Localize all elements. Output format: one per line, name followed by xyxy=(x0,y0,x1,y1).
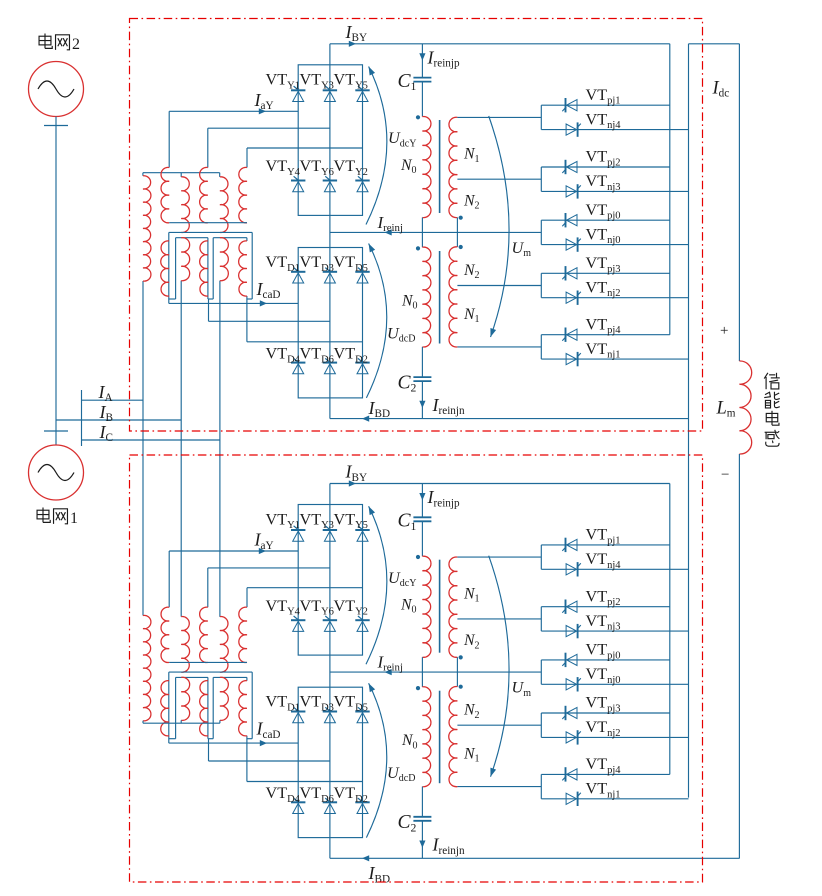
winding D primary c xyxy=(220,677,228,720)
svg-text:N0: N0 xyxy=(401,732,418,751)
polarity dot lower secondary xyxy=(459,245,463,249)
winding D secondary a xyxy=(161,681,169,736)
thyristor pair VTpj4 VTnj1 branch wires xyxy=(457,774,688,798)
series winding link phase C between modules xyxy=(219,281,221,617)
wire Ireinj middle rail xyxy=(330,655,541,687)
winding D secondary a xyxy=(161,241,169,296)
svg-text:UdcD: UdcD xyxy=(387,763,415,784)
svg-text:IC: IC xyxy=(99,422,113,444)
thyristor VTD3 xyxy=(323,268,337,283)
D-group outer loop wire xyxy=(169,672,252,743)
winding N1 N2 upper secondary xyxy=(449,117,457,217)
thyristor VTY2 xyxy=(355,616,369,631)
thyristor VTpj4 xyxy=(562,328,577,342)
thyristor VTY4 xyxy=(291,176,305,191)
svg-text:VTY3: VTY3 xyxy=(300,71,334,92)
thyristor VTD2 xyxy=(355,358,369,373)
svg-text:VTnj0: VTnj0 xyxy=(586,665,621,686)
thyristor VTnj3 xyxy=(566,624,581,638)
svg-text:VTpj0: VTpj0 xyxy=(586,641,621,662)
svg-text:Um: Um xyxy=(512,678,532,699)
thyristor VTD3 xyxy=(323,707,337,722)
thyristor VTD5 xyxy=(355,707,369,722)
curved arrow Um xyxy=(488,556,509,778)
svg-text:C1: C1 xyxy=(398,511,417,533)
labels VTD1 VTD3 VTD5 xyxy=(266,693,368,714)
winding D secondary c xyxy=(239,681,247,736)
wire phase b into D bridge xyxy=(209,299,330,321)
bus of nj thyristors spanning both modules xyxy=(688,44,690,798)
labels VTD4 VTD6 VTD2 xyxy=(266,345,368,366)
svg-text:Idc: Idc xyxy=(712,79,730,100)
wire phase bY into Y bridge xyxy=(208,568,330,607)
svg-text:C2: C2 xyxy=(398,373,417,395)
svg-text:Ireinjp: Ireinjp xyxy=(427,487,461,509)
svg-text:VTpj4: VTpj4 xyxy=(586,755,622,776)
thyristor VTD4 xyxy=(291,358,305,373)
svg-text:VTpj1: VTpj1 xyxy=(586,86,621,107)
labels VTY4 VTY6 VTY2 xyxy=(266,157,368,178)
svg-text:VTY3: VTY3 xyxy=(300,510,334,531)
thyristor pair VTpj0 VTnj0 branch wires xyxy=(541,220,688,244)
svg-text:VTnj4: VTnj4 xyxy=(586,110,622,131)
lower common bus of series windings xyxy=(143,720,220,723)
svg-text:VTnj3: VTnj3 xyxy=(586,172,621,193)
winding phase-A series coil (tall) xyxy=(143,176,151,281)
svg-text:N0: N0 xyxy=(401,292,418,311)
thyristor pair VTpj1 VTnj4 branch wires xyxy=(457,105,688,129)
wire phase b into D bridge xyxy=(209,739,330,761)
svg-text:VTD6: VTD6 xyxy=(300,784,334,805)
bus of pj thyristors xyxy=(669,44,671,335)
svg-text:2: 2 xyxy=(72,36,80,53)
wire IB xyxy=(82,419,182,421)
svg-text:Lm: Lm xyxy=(716,399,736,420)
svg-text:N2: N2 xyxy=(463,193,480,212)
thyristor VTnj2 xyxy=(566,291,581,305)
svg-text:VTpj3: VTpj3 xyxy=(586,254,621,275)
svg-text:IBY: IBY xyxy=(345,462,368,484)
capacitor C2 xyxy=(413,377,431,381)
svg-text:VTpj3: VTpj3 xyxy=(586,694,621,715)
wire IBD (D bridge negative output rail) xyxy=(330,398,689,422)
winding D primary c xyxy=(220,238,228,281)
wire lower N0 to C2 xyxy=(421,347,423,377)
grid phase bus bar xyxy=(56,390,82,446)
D-group inner loop wire left xyxy=(169,238,208,299)
svg-text:UdcD: UdcD xyxy=(387,323,415,344)
thyristor VTnj4 xyxy=(566,562,581,576)
wire C1 to injection transformer xyxy=(421,521,423,556)
thyristor pair VTpj4 VTnj1 branch wires xyxy=(457,335,688,359)
wire IcaD into D bridge with arrow xyxy=(169,300,298,306)
polarity dot lower N0 xyxy=(416,686,420,690)
wire phase cY into Y bridge xyxy=(247,588,363,608)
svg-text:VTD1: VTD1 xyxy=(266,253,300,274)
D-group outer loop wire xyxy=(169,232,252,303)
thyristor pair VTpj2 VTnj3 branch wires xyxy=(457,607,688,631)
svg-text:VTY1: VTY1 xyxy=(266,71,300,92)
AC grid source 1 (dian-wang 1) xyxy=(29,431,84,500)
wire phase bY into Y bridge xyxy=(208,128,330,167)
D-group inner loop wire left xyxy=(169,677,208,738)
polarity dot lower secondary xyxy=(459,685,463,689)
winding Y secondary c xyxy=(239,167,247,222)
thyristor VTY2 xyxy=(355,176,369,191)
curved arrow UdcY xyxy=(366,505,387,664)
winding Y secondary b xyxy=(200,167,208,222)
winding Y primary c xyxy=(220,617,228,673)
wire phase c into D bridge xyxy=(247,296,363,342)
wire IBY (Y bridge positive output) xyxy=(330,41,670,65)
thyristor VTnj0 xyxy=(566,237,581,251)
labels VTD4 VTD6 VTD2 xyxy=(266,784,368,805)
svg-text:N1: N1 xyxy=(463,746,480,765)
winding N2 N1 lower secondary xyxy=(449,687,458,787)
thyristor VTpj3 xyxy=(562,706,577,720)
thyristor VTD2 xyxy=(355,798,369,813)
thyristor pair VTpj0 VTnj0 branch wires xyxy=(541,660,688,684)
thyristor VTnj4 xyxy=(566,122,581,136)
svg-text:IBY: IBY xyxy=(345,22,368,44)
AC source 2 circle xyxy=(29,62,84,117)
svg-text:C2: C2 xyxy=(398,812,417,834)
svg-text:VTpj2: VTpj2 xyxy=(586,148,621,169)
labels VTY1 VTY3 VTY5 xyxy=(266,510,368,531)
svg-text:VTY6: VTY6 xyxy=(300,597,334,618)
svg-text:UdcY: UdcY xyxy=(388,128,416,149)
svg-text:VTpj1: VTpj1 xyxy=(586,526,621,547)
thyristor VTpj2 xyxy=(562,160,577,174)
svg-text:−: − xyxy=(721,467,729,483)
wire phase cY into Y bridge xyxy=(247,148,363,168)
thyristor VTnj0 xyxy=(566,677,581,691)
winding Y secondary a xyxy=(161,607,169,662)
svg-text:N2: N2 xyxy=(463,262,480,281)
wire from IBY to C1 with Ireinjp arrow xyxy=(419,484,425,518)
svg-text:Ireinjn: Ireinjn xyxy=(432,835,466,857)
curved arrow UdcY xyxy=(366,65,387,224)
labels VTD1 VTD3 VTD5 xyxy=(266,253,368,274)
svg-text:Um: Um xyxy=(512,238,532,259)
svg-text:Ireinjp: Ireinjp xyxy=(427,48,461,70)
curved arrow Um xyxy=(488,116,509,338)
thyristor VTY6 xyxy=(323,616,337,631)
svg-text:+: + xyxy=(720,323,728,339)
core upper transformer xyxy=(439,560,441,653)
polarity dot upper secondary xyxy=(459,655,463,659)
svg-text:C1: C1 xyxy=(398,71,417,93)
wire Ireinj middle rail xyxy=(330,215,541,247)
thyristor pair VTpj3 VTnj2 branch wires xyxy=(457,273,688,297)
curved arrow UdcD xyxy=(366,682,387,838)
svg-text:VTD3: VTD3 xyxy=(300,693,334,714)
core lower transformer xyxy=(439,691,441,784)
Idc line upper segment xyxy=(738,44,740,361)
thyristor VTD1 xyxy=(291,707,305,722)
module 1 boundary dash-dot box xyxy=(130,455,703,882)
svg-text:VTD4: VTD4 xyxy=(266,345,301,366)
labels VTY1 VTY3 VTY5 xyxy=(266,71,368,92)
winding N0 upper xyxy=(422,556,431,657)
thyristor VTnj1 xyxy=(566,792,581,806)
svg-text:N1: N1 xyxy=(463,146,480,165)
six-pulse D bridge (module 1) outline xyxy=(298,687,362,837)
thyristor VTY4 xyxy=(291,616,305,631)
svg-text:VTD3: VTD3 xyxy=(300,253,334,274)
svg-text:N1: N1 xyxy=(463,306,480,325)
svg-text:Ireinj: Ireinj xyxy=(377,653,403,674)
svg-text:VTD6: VTD6 xyxy=(300,345,334,366)
svg-text:VTD4: VTD4 xyxy=(266,784,301,805)
wire lower N0 to C2 xyxy=(421,787,423,817)
winding D secondary c xyxy=(239,241,247,296)
wire IC xyxy=(82,439,220,441)
polarity dot upper N0 xyxy=(416,555,420,559)
bus of pj thyristors xyxy=(669,484,671,775)
thyristor VTD6 xyxy=(323,798,337,813)
six-pulse Y bridge (module 1) outline xyxy=(298,505,362,656)
svg-text:VTY4: VTY4 xyxy=(266,157,301,178)
thyristor VTpj3 xyxy=(562,266,577,280)
Idc line lower segment xyxy=(738,454,740,859)
svg-text:VTnj2: VTnj2 xyxy=(586,278,621,299)
wire IcaD into D bridge with arrow xyxy=(169,740,298,746)
wire phase aY into Y bridge with arrow xyxy=(169,548,298,607)
winding N2 N1 lower secondary xyxy=(449,247,458,347)
svg-text:N0: N0 xyxy=(400,597,417,616)
winding D primary b xyxy=(181,677,189,720)
winding Y secondary c xyxy=(239,607,247,662)
svg-text:1: 1 xyxy=(70,510,78,527)
series winding link phase A between modules xyxy=(142,281,144,616)
svg-text:N2: N2 xyxy=(463,632,480,651)
thyristor VTD4 xyxy=(291,798,305,813)
svg-text:VTnj1: VTnj1 xyxy=(586,340,621,361)
polarity dot upper N0 xyxy=(416,115,420,119)
svg-text:Ireinj: Ireinj xyxy=(377,213,403,234)
thyristor pair VTpj3 VTnj2 branch wires xyxy=(457,713,688,737)
energy storage inductor Lm xyxy=(739,361,751,454)
svg-text:IaY: IaY xyxy=(254,90,274,112)
wire from IBY to C1 with Ireinjp arrow xyxy=(419,44,425,78)
svg-text:VTnj0: VTnj0 xyxy=(586,225,621,246)
winding N1 N2 upper secondary xyxy=(449,557,457,657)
thyristor pair VTpj1 VTnj4 branch wires xyxy=(457,545,688,569)
thyristor VTnj2 xyxy=(566,730,581,744)
curved arrow UdcD xyxy=(366,242,387,398)
module 2 boundary dash-dot box xyxy=(130,19,703,432)
wire top link to Idc line xyxy=(689,43,740,45)
svg-text:VTnj1: VTnj1 xyxy=(586,780,621,801)
core upper transformer xyxy=(439,120,441,213)
polarity dot upper secondary xyxy=(459,216,463,220)
six-pulse Y bridge (module 2) outline xyxy=(298,65,362,216)
Y-group secondary common bus wire xyxy=(169,661,247,663)
winding phase-A series coil (tall) xyxy=(143,615,151,720)
svg-text:VTnj4: VTnj4 xyxy=(586,550,622,571)
six-pulse D bridge (module 2) outline xyxy=(298,248,362,398)
svg-text:N2: N2 xyxy=(463,702,480,721)
svg-text:VTpj0: VTpj0 xyxy=(586,201,621,222)
thyristor VTY3 xyxy=(323,526,337,541)
thyristor VTD5 xyxy=(355,268,369,283)
svg-text:VTY4: VTY4 xyxy=(266,597,301,618)
D-group inner loop wire right xyxy=(208,677,247,738)
thyristor VTD1 xyxy=(291,268,305,283)
thyristor VTY5 xyxy=(355,86,369,101)
svg-text:VTD1: VTD1 xyxy=(266,693,300,714)
label dian-wang 1 xyxy=(37,508,78,528)
svg-text:VTnj3: VTnj3 xyxy=(586,612,621,633)
svg-text:VTnj2: VTnj2 xyxy=(586,718,621,739)
winding Y primary b xyxy=(181,177,189,233)
svg-text:VTY1: VTY1 xyxy=(266,510,300,531)
thyristor VTY5 xyxy=(355,526,369,541)
capacitor C2 xyxy=(413,817,431,821)
svg-text:IBD: IBD xyxy=(368,398,391,420)
svg-text:IcaD: IcaD xyxy=(256,719,281,741)
core lower transformer xyxy=(439,251,441,344)
thyristor VTY6 xyxy=(323,176,337,191)
thyristor VTY1 xyxy=(291,526,305,541)
wire C1 to injection transformer xyxy=(421,82,423,117)
winding Y primary b xyxy=(181,617,189,673)
wire C2 to rail with Ireinjn arrow xyxy=(419,821,425,859)
Y-group star bus wire xyxy=(143,173,220,177)
series winding link phase B between modules xyxy=(180,281,182,617)
wire AC source 2 down to grid bus xyxy=(44,117,68,445)
labels VTY4 VTY6 VTY2 xyxy=(266,597,368,618)
wire C2 to rail with Ireinjn arrow xyxy=(419,381,425,419)
thyristor VTpj1 xyxy=(562,538,577,552)
thyristor VTY3 xyxy=(323,86,337,101)
thyristor VTnj1 xyxy=(566,352,581,366)
Y-group secondary common bus wire xyxy=(169,222,247,224)
svg-text:N0: N0 xyxy=(400,157,417,176)
svg-text:VTY6: VTY6 xyxy=(300,157,334,178)
polarity dot lower N0 xyxy=(416,246,420,250)
wire IA xyxy=(82,399,144,401)
winding D secondary b xyxy=(200,241,208,296)
winding D secondary b xyxy=(200,681,208,736)
svg-text:VTpj4: VTpj4 xyxy=(586,315,622,336)
winding Y primary c xyxy=(220,177,228,233)
thyristor VTpj0 xyxy=(562,653,577,667)
wire IBY (Y bridge positive output) xyxy=(330,480,670,504)
svg-text:IaY: IaY xyxy=(254,530,274,552)
AC grid source 2 (dian-wang 2) label xyxy=(39,34,80,54)
thyristor VTY1 xyxy=(291,86,305,101)
thyristor pair VTpj2 VTnj3 branch wires xyxy=(457,167,688,191)
wire IBD (D bridge negative output rail) xyxy=(330,838,740,862)
thyristor VTpj4 xyxy=(562,767,577,781)
svg-text:UdcY: UdcY xyxy=(388,568,416,589)
svg-text:IcaD: IcaD xyxy=(256,279,281,301)
capacitor C1 xyxy=(413,517,431,521)
winding Y secondary a xyxy=(161,167,169,222)
thyristor VTpj0 xyxy=(562,213,577,227)
capacitor C1 xyxy=(413,78,431,82)
winding N0 upper xyxy=(422,116,431,217)
thyristor VTD6 xyxy=(323,358,337,373)
winding D primary b xyxy=(181,238,189,281)
winding Y secondary b xyxy=(200,607,208,662)
svg-text:N1: N1 xyxy=(463,585,480,604)
svg-text:VTpj2: VTpj2 xyxy=(586,587,621,608)
D-group inner loop wire right xyxy=(208,238,247,299)
winding N0 lower xyxy=(422,687,431,787)
winding N0 lower xyxy=(422,247,431,347)
label chu-neng-dian-gan (energy storage inductor) xyxy=(764,373,780,446)
thyristor VTnj3 xyxy=(566,184,581,198)
wire phase c into D bridge xyxy=(247,736,363,782)
svg-text:Ireinjn: Ireinjn xyxy=(432,395,466,417)
thyristor VTpj2 xyxy=(562,600,577,614)
wire phase aY into Y bridge with arrow xyxy=(169,108,298,167)
thyristor VTpj1 xyxy=(562,98,577,112)
svg-text:IA: IA xyxy=(98,382,113,404)
